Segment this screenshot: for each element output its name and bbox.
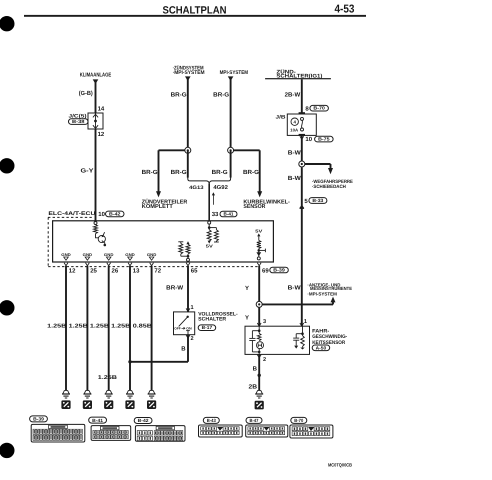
svg-text:B-42: B-42 (138, 418, 149, 423)
svg-text:5: 5 (304, 198, 308, 205)
svg-text:·SCHIEBEDACH: ·SCHIEBEDACH (312, 184, 346, 190)
svg-text:25: 25 (90, 267, 97, 274)
svg-text:·MPI-SYSTEM: ·MPI-SYSTEM (173, 70, 205, 76)
svg-text:Y: Y (245, 285, 249, 292)
svg-text:BR-G: BR-G (142, 169, 158, 176)
svg-text:ON: ON (186, 327, 192, 331)
svg-text:B-70: B-70 (313, 106, 325, 111)
svg-text:4-53: 4-53 (335, 3, 355, 15)
svg-text:G-Y: G-Y (81, 168, 94, 175)
svg-text:GND: GND (61, 253, 71, 257)
svg-text:5V: 5V (206, 244, 213, 249)
svg-text:BR-G: BR-G (212, 169, 228, 176)
svg-text:10: 10 (305, 136, 312, 143)
svg-text:26: 26 (112, 267, 119, 274)
svg-text:72: 72 (154, 267, 161, 274)
svg-text:BR-G: BR-G (243, 169, 259, 176)
svg-text:69: 69 (262, 267, 269, 274)
svg-text:B-70: B-70 (294, 418, 303, 423)
svg-text:B-41: B-41 (224, 212, 234, 217)
svg-text:A-50: A-50 (316, 345, 327, 350)
svg-text:2B-W: 2B-W (285, 92, 301, 99)
svg-text:1.25B: 1.25B (111, 324, 130, 330)
svg-text:J/B: J/B (276, 114, 286, 120)
svg-text:GND: GND (125, 253, 135, 257)
svg-text:8: 8 (305, 105, 309, 112)
svg-text:33: 33 (212, 211, 219, 218)
svg-text:(G-B): (G-B) (79, 90, 93, 97)
svg-text:GND: GND (83, 253, 93, 257)
svg-text:1.25B: 1.25B (90, 324, 109, 330)
svg-text:SCHALTPLAN: SCHALTPLAN (163, 5, 227, 17)
svg-text:B: B (253, 366, 258, 373)
svg-text:12: 12 (69, 267, 76, 274)
svg-text:65: 65 (191, 267, 198, 274)
svg-text:BR-W: BR-W (166, 284, 183, 291)
svg-text:B-75: B-75 (318, 137, 330, 142)
svg-text:10: 10 (98, 211, 105, 218)
svg-text:B-17: B-17 (202, 325, 213, 330)
svg-text:12: 12 (98, 131, 105, 138)
svg-text:SENSOR: SENSOR (243, 204, 265, 210)
svg-text:13: 13 (133, 267, 140, 274)
svg-text:B-39: B-39 (33, 417, 44, 422)
svg-text:2: 2 (191, 336, 194, 342)
svg-text:B-41: B-41 (92, 418, 103, 423)
svg-text:B-W: B-W (288, 149, 301, 156)
svg-text:1.25B: 1.25B (98, 375, 117, 381)
svg-text:B-38: B-38 (72, 119, 85, 124)
svg-text:·MPI-SYSTEM: ·MPI-SYSTEM (307, 292, 337, 297)
svg-text:KLIMAANLAGE: KLIMAANLAGE (80, 73, 112, 79)
svg-text:MC0TQ00CB: MC0TQ00CB (328, 463, 353, 468)
svg-text:4: 4 (293, 120, 296, 125)
svg-text:GND: GND (104, 253, 114, 257)
svg-text:KOMPLETT: KOMPLETT (142, 204, 174, 210)
svg-text:BR-G: BR-G (213, 91, 229, 98)
svg-text:B-W: B-W (288, 285, 301, 292)
svg-text:MESSINSTRUMENTE: MESSINSTRUMENTE (310, 286, 352, 291)
svg-text:4G13: 4G13 (189, 185, 204, 191)
svg-text:SCHALTER: SCHALTER (198, 316, 226, 322)
svg-text:2: 2 (263, 357, 266, 363)
svg-text:B-42: B-42 (109, 211, 121, 216)
svg-text:10A: 10A (290, 127, 298, 132)
svg-text:MPI-SYSTEM: MPI-SYSTEM (220, 70, 249, 76)
svg-text:1.25B: 1.25B (47, 324, 66, 330)
svg-text:14: 14 (98, 106, 105, 113)
svg-text:B: B (181, 346, 186, 353)
svg-text:1: 1 (304, 319, 307, 325)
svg-text:GND: GND (147, 253, 157, 257)
svg-text:B-43: B-43 (207, 418, 216, 423)
svg-text:·WEGFAHRSPERRE: ·WEGFAHRSPERRE (312, 179, 354, 185)
svg-text:BR-G: BR-G (171, 169, 187, 176)
svg-text:ELC-4A/T-ECU: ELC-4A/T-ECU (48, 211, 95, 217)
svg-text:1.25B: 1.25B (69, 324, 88, 330)
svg-text:1: 1 (191, 305, 194, 311)
svg-text:BR-G: BR-G (171, 91, 187, 98)
svg-text:B-33: B-33 (312, 198, 323, 203)
svg-text:5V: 5V (255, 228, 262, 233)
svg-text:B-39: B-39 (273, 268, 285, 273)
svg-text:Y: Y (245, 315, 249, 322)
svg-text:B-47: B-47 (250, 418, 259, 423)
svg-text:2B: 2B (249, 384, 258, 391)
svg-text:3: 3 (263, 319, 266, 325)
svg-text:B-W: B-W (288, 175, 301, 182)
svg-text:OFF: OFF (174, 327, 181, 331)
svg-text:4G92: 4G92 (213, 185, 228, 191)
svg-text:0.85B: 0.85B (133, 324, 152, 330)
